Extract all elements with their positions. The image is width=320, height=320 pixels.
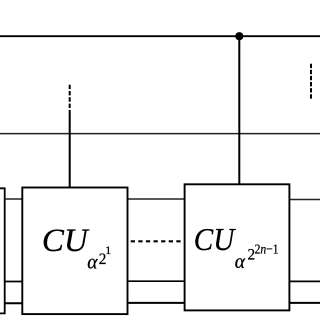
svg-text:α: α: [235, 252, 246, 273]
svg-text:2n−1: 2n−1: [255, 243, 279, 258]
svg-text:CU: CU: [194, 221, 236, 257]
svg-text:α: α: [87, 253, 98, 274]
svg-text:1: 1: [105, 243, 111, 257]
svg-text:CU: CU: [42, 223, 90, 259]
